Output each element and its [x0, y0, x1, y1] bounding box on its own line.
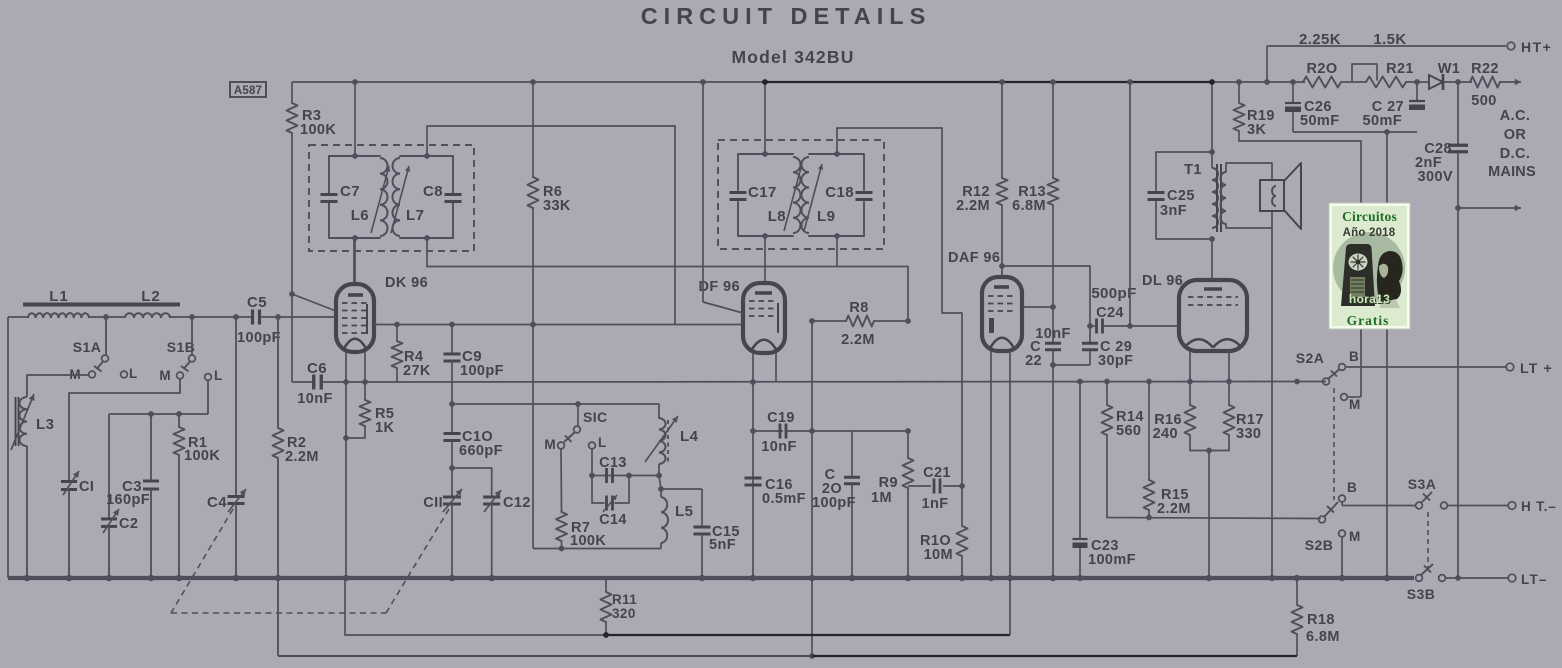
coil L6	[380, 158, 388, 174]
capacitor C12 (variable)	[483, 496, 500, 499]
terminal LT-	[1508, 574, 1516, 582]
svg-text:320: 320	[612, 606, 636, 621]
switch S3B	[1416, 575, 1423, 582]
tuning arrows L6 L7	[371, 166, 389, 233]
wire C9 to C10	[451, 361, 453, 433]
wire S1A-M to L3	[27, 375, 89, 396]
svg-text:M: M	[544, 437, 556, 452]
coil L8	[793, 157, 801, 172]
capacitor C5	[251, 310, 254, 325]
wire left frame down	[7, 317, 9, 578]
svg-text:10nF: 10nF	[761, 439, 796, 455]
wire C18 tank loop	[809, 154, 864, 190]
wire R14 bottom to S2B row	[1107, 435, 1320, 519]
svg-text:10M: 10M	[924, 547, 953, 563]
svg-text:R9: R9	[879, 475, 898, 491]
coil L9	[802, 157, 810, 172]
wire DAF96 grid row	[1022, 306, 1053, 308]
svg-text:T1: T1	[1184, 162, 1202, 178]
svg-text:1nF: 1nF	[922, 496, 949, 512]
svg-text:Circuitos: Circuitos	[1342, 209, 1397, 224]
svg-text:C2: C2	[119, 516, 138, 532]
svg-text:22: 22	[1025, 353, 1042, 369]
resistor R1	[178, 414, 180, 427]
wire R2 bottom through bus to bottom row	[277, 458, 279, 656]
svg-text:L8: L8	[768, 208, 786, 225]
capacitor C20	[851, 431, 853, 477]
svg-text:6.8M: 6.8M	[1012, 198, 1046, 214]
wire tank4 top riser	[836, 128, 838, 154]
terminal LT+	[1506, 363, 1514, 371]
svg-text:C12: C12	[503, 495, 531, 511]
resistor R21	[1366, 77, 1406, 88]
transformer T1 primary	[1212, 168, 1218, 180]
wire C5 row into tube	[292, 316, 336, 318]
gang link dashed C11	[386, 509, 449, 613]
capacitor C27	[1409, 100, 1425, 102]
wire tank3 top to HT bus	[764, 82, 766, 154]
svg-text:50mF: 50mF	[1363, 113, 1402, 129]
capacitor C22	[1052, 307, 1054, 343]
wire C15 row	[661, 488, 702, 490]
wire filament row 1 (left)	[345, 578, 606, 635]
wire R13 to grid row	[1052, 205, 1054, 307]
wire C7 tank loop	[329, 156, 380, 193]
svg-text:CIRCUIT DETAILS: CIRCUIT DETAILS	[641, 3, 932, 29]
resistor R14	[1106, 382, 1108, 406]
wire mains arrow lower	[1458, 207, 1521, 209]
wire C24 to DL96	[1103, 325, 1179, 327]
gang link dashed row	[171, 612, 386, 614]
aerial rod bar	[23, 303, 180, 307]
wire S2B-B stub	[1341, 502, 1343, 506]
wire R20-R21	[1341, 81, 1366, 83]
svg-text:C5: C5	[247, 294, 267, 311]
svg-text:L1: L1	[49, 288, 69, 305]
wire HT+ riser	[1266, 46, 1268, 82]
capacitor C15	[701, 489, 703, 527]
capacitor C29	[1089, 326, 1091, 343]
wire grid diagonal to DK96	[292, 294, 336, 311]
wire tank3 bottom to DF96 top	[764, 236, 766, 283]
svg-text:S1B: S1B	[167, 339, 195, 355]
wire C26 bottom	[1292, 112, 1294, 132]
resistor R12	[1001, 82, 1003, 178]
resistor R15	[1148, 382, 1150, 481]
svg-text:LT–: LT–	[1521, 572, 1548, 587]
coil L1	[28, 313, 36, 318]
wire tank1 bottom to DK96 top	[354, 238, 356, 286]
capacitor C25	[1148, 191, 1165, 194]
wire C24 row	[1090, 325, 1096, 327]
svg-text:R21: R21	[1386, 61, 1414, 77]
wire R6 column down	[532, 208, 534, 548]
watermark logo hora13	[1329, 203, 1410, 329]
wire S2A-M column	[1360, 141, 1362, 397]
capacitor C2 (variable)	[101, 517, 117, 520]
wire L3 bottom	[26, 446, 28, 578]
svg-text:A587: A587	[234, 85, 262, 97]
wire AGC2 row	[427, 267, 908, 322]
wire DAF96 anode branch	[1002, 266, 1090, 326]
svg-text:1M: 1M	[871, 490, 892, 506]
resistor R9	[907, 431, 909, 458]
resistor R4	[396, 325, 398, 342]
svg-text:6.8M: 6.8M	[1306, 629, 1340, 645]
svg-text:660pF: 660pF	[459, 443, 503, 459]
wire tank4 top row to detector	[837, 128, 962, 486]
svg-text:OR: OR	[1504, 127, 1527, 143]
svg-text:Model 342BU: Model 342BU	[731, 47, 854, 67]
wire DL96 pin1	[1189, 351, 1191, 382]
wire tank4 bottom to AGC2 row	[836, 236, 838, 267]
tube DF96	[743, 283, 785, 353]
svg-text:C24: C24	[1096, 305, 1124, 321]
wire HT+ bus (right segment to R20)	[1210, 81, 1305, 83]
gang link dashed C4	[171, 509, 233, 613]
capacitor C28	[1448, 144, 1468, 147]
svg-text:3K: 3K	[1247, 122, 1266, 138]
mech link S3A-S3B dashed	[1427, 512, 1429, 570]
svg-text:100pF: 100pF	[812, 495, 856, 511]
svg-text:2.25K: 2.25K	[1299, 31, 1341, 48]
wire tank2 top riser	[426, 126, 428, 156]
svg-text:240: 240	[1153, 426, 1178, 442]
wire C29 row	[1053, 364, 1090, 366]
svg-text:100pF: 100pF	[237, 330, 281, 346]
wire C20/R9 row	[812, 430, 908, 432]
wire speaker loop top	[1226, 163, 1272, 172]
svg-text:5nF: 5nF	[709, 537, 736, 553]
svg-text:C13: C13	[599, 455, 627, 471]
svg-text:A.C.: A.C.	[1500, 108, 1531, 124]
svg-text:L: L	[129, 366, 138, 381]
svg-text:L4: L4	[680, 428, 699, 445]
capacitor C25 loop	[1156, 152, 1212, 192]
wire S3A to HT- terminal	[1447, 505, 1508, 507]
resistor R5	[364, 382, 366, 400]
capacitor C10	[444, 432, 461, 435]
wire R21-W1	[1406, 81, 1429, 83]
wire C13 row	[592, 475, 659, 477]
capacitor C26	[1285, 102, 1301, 104]
capacitor C24	[1095, 319, 1098, 334]
svg-text:560: 560	[1116, 423, 1141, 439]
wire R16/R17 to bus	[1208, 451, 1210, 579]
svg-text:MAINS: MAINS	[1488, 164, 1536, 180]
wire C8 tank loop	[400, 156, 453, 193]
wire DAF96 pin columns	[990, 351, 992, 578]
svg-text:C7: C7	[340, 183, 360, 200]
wire C17 tank loop	[738, 154, 793, 190]
terminal H.T.+	[1507, 42, 1515, 50]
tube DL96	[1179, 280, 1247, 351]
svg-text:M: M	[159, 368, 171, 383]
wire R12 to DAF96 top cap	[1001, 205, 1003, 277]
wire DK96 pin1 column	[345, 352, 347, 578]
svg-text:330: 330	[1236, 426, 1261, 442]
svg-text:L: L	[598, 435, 607, 450]
wire DK96 anode row	[374, 324, 743, 326]
tube DAF96	[982, 277, 1022, 351]
inductor L3	[15, 397, 17, 446]
wire C15 bottom	[701, 534, 703, 578]
wire C26/C27 bottom rail	[1293, 131, 1417, 133]
svg-text:1K: 1K	[375, 420, 394, 436]
svg-text:100pF: 100pF	[460, 363, 504, 379]
resistor R19	[1238, 82, 1240, 103]
wire HT+ bus (black segment)	[765, 81, 1210, 83]
svg-text:DAF 96: DAF 96	[948, 250, 1000, 266]
wire osc bottom row	[533, 548, 661, 550]
capacitor C6	[312, 375, 315, 390]
svg-text:0.5mF: 0.5mF	[762, 491, 806, 507]
wire C10 to C11	[451, 441, 453, 497]
wire DL96 top cap	[1211, 239, 1213, 280]
wire R22 to mains arrow	[1500, 81, 1521, 83]
wire C28 column top	[1457, 82, 1459, 145]
label A587 box	[230, 82, 266, 97]
resistor R22	[1470, 77, 1500, 88]
svg-text:HT+: HT+	[1521, 39, 1552, 55]
svg-text:L7: L7	[406, 207, 424, 224]
wire AGC rail	[322, 381, 1326, 384]
svg-text:Año 2018: Año 2018	[1343, 227, 1396, 239]
svg-text:S2B: S2B	[1305, 537, 1333, 553]
wire C11 bottom	[451, 504, 453, 578]
capacitor C16	[745, 477, 762, 480]
wire S2A-M stub	[1347, 396, 1361, 398]
resistor R16	[1189, 382, 1191, 406]
svg-text:R2O: R2O	[1306, 61, 1337, 77]
wire C1 column	[68, 393, 70, 481]
speaker voice coil	[1260, 180, 1284, 211]
resistor R18	[1296, 578, 1298, 605]
wire C12 bottom	[491, 504, 493, 578]
resistor R7	[560, 449, 563, 512]
coil L4	[658, 404, 660, 418]
capacitor C8	[445, 193, 462, 196]
capacitor C7	[321, 193, 338, 196]
wire W1-R22	[1443, 81, 1472, 83]
capacitor C3	[143, 480, 159, 483]
wire R3 column down	[291, 133, 293, 382]
capacitor C17	[730, 191, 747, 194]
capacitor C19	[753, 430, 783, 432]
wire filament row 1 right riser	[1009, 578, 1011, 635]
wire C2 bottom	[108, 527, 110, 579]
wire R19 bottom to S2A-M column	[1239, 131, 1361, 141]
svg-text:R22: R22	[1471, 61, 1499, 77]
svg-text:160pF: 160pF	[106, 492, 150, 508]
wire S1B-L column	[207, 380, 209, 414]
wire DK96 pin2	[364, 352, 366, 382]
svg-text:2.2M: 2.2M	[1157, 501, 1191, 517]
svg-text:DL 96: DL 96	[1142, 273, 1183, 289]
wire AGC rail left	[292, 381, 313, 383]
svg-text:500: 500	[1471, 93, 1496, 109]
svg-text:100K: 100K	[570, 533, 606, 549]
svg-text:1.5K: 1.5K	[1373, 31, 1406, 48]
resistor R20	[1303, 77, 1341, 88]
svg-text:L3: L3	[36, 416, 54, 433]
speaker horn	[1284, 163, 1301, 229]
svg-text:33K: 33K	[543, 198, 571, 214]
svg-text:C25: C25	[1167, 188, 1195, 204]
svg-text:2.2M: 2.2M	[956, 198, 990, 214]
resistor R17	[1228, 382, 1230, 406]
wire S2B-M to bus	[1341, 537, 1343, 578]
wire HT+ top row	[1267, 45, 1506, 47]
terminal HT-	[1508, 502, 1516, 510]
wire C27 column	[1416, 82, 1418, 101]
capacitor C4 (variable)	[228, 495, 245, 498]
wire tank1 top to HT bus	[354, 82, 356, 156]
wire R5 bottom	[346, 426, 365, 438]
svg-text:R11: R11	[612, 592, 637, 607]
svg-text:SIC: SIC	[583, 409, 608, 425]
capacitor C11 (variable)	[443, 496, 461, 499]
wire R1 bottom	[178, 455, 180, 578]
wire S1B-M row to C1	[69, 379, 180, 393]
wire S3B to LT- terminal	[1445, 577, 1508, 579]
wire osc row	[452, 403, 659, 405]
svg-text:300V: 300V	[1418, 169, 1453, 185]
wire C26/C27 rail drop to LT- bus	[1386, 132, 1388, 578]
wire C14 loop	[592, 476, 604, 504]
wire HT+ bus (grey left segment)	[292, 81, 765, 83]
svg-text:S1A: S1A	[73, 339, 101, 355]
resistor R3	[291, 82, 293, 103]
svg-text:L: L	[214, 368, 223, 383]
transformer T1 core	[1216, 164, 1218, 232]
svg-text:27K: 27K	[403, 363, 431, 379]
svg-text:DF 96: DF 96	[699, 279, 741, 295]
coil L7	[393, 158, 401, 174]
capacitor C1 (variable)	[61, 480, 77, 483]
svg-text:B: B	[1349, 349, 1359, 364]
resistor R2 column	[277, 317, 279, 428]
svg-text:CII: CII	[423, 495, 443, 511]
svg-text:Gratis: Gratis	[1347, 313, 1390, 328]
wire DK96 top cap	[353, 238, 355, 284]
svg-text:H T.–: H T.–	[1521, 499, 1557, 514]
potentiometer tap R21 bracket	[1352, 64, 1377, 82]
wire R16/R17 join	[1190, 435, 1229, 451]
diode W1	[1429, 75, 1443, 89]
svg-text:S2A: S2A	[1296, 350, 1324, 366]
wire R7 bottom	[561, 541, 563, 549]
wire S2A-B to LT+ terminal	[1345, 366, 1506, 368]
svg-text:3nF: 3nF	[1160, 203, 1187, 219]
svg-text:C8: C8	[423, 183, 443, 200]
svg-text:C18: C18	[825, 184, 854, 201]
mech link S2A-S2B dashed	[1333, 388, 1335, 500]
wire filament row 1 (black)	[606, 634, 1010, 636]
wire DF96 pin1 column	[752, 353, 754, 578]
wire T1 column from HT bus	[1211, 82, 1213, 168]
wire L4 to L5	[658, 464, 660, 476]
svg-text:C19: C19	[767, 410, 795, 426]
capacitor C18	[856, 191, 873, 194]
svg-text:C6: C6	[307, 360, 327, 377]
wire filament row 2 (grey)	[278, 655, 812, 657]
svg-text:100mF: 100mF	[1088, 552, 1136, 568]
svg-text:L6: L6	[351, 207, 369, 224]
svg-text:M: M	[1349, 529, 1361, 544]
resistor R10	[961, 486, 963, 526]
svg-text:S3B: S3B	[1407, 586, 1435, 602]
svg-text:10nF: 10nF	[297, 391, 332, 407]
resistor R2	[273, 428, 284, 458]
wire DL96 pin2	[1228, 351, 1230, 382]
capacitor C13	[605, 468, 608, 483]
capacitor C9	[451, 325, 453, 354]
IF can 2 dashed box	[718, 140, 884, 249]
resistor R13	[1052, 82, 1054, 178]
wire HT- row left	[1342, 505, 1415, 507]
svg-text:D.C.: D.C.	[1500, 146, 1531, 162]
wire R8 left column	[811, 321, 813, 656]
tube DK96	[336, 284, 374, 352]
svg-text:R18: R18	[1307, 612, 1335, 628]
wire C28 to LT- row	[1457, 152, 1459, 578]
svg-text:R8: R8	[849, 300, 868, 316]
IF can 1 dashed box	[309, 145, 474, 251]
svg-text:C17: C17	[748, 184, 777, 201]
svg-text:2.2M: 2.2M	[841, 332, 875, 348]
wire aerial row	[8, 316, 28, 318]
svg-text:50mF: 50mF	[1300, 113, 1339, 129]
wire C4 bottom	[235, 504, 237, 578]
resistor R6	[532, 82, 534, 177]
wire tank2 bottom to AGC row	[426, 238, 428, 267]
svg-text:LT +: LT +	[1520, 360, 1553, 376]
wire speaker column	[1271, 163, 1273, 578]
svg-text:C14: C14	[599, 512, 627, 528]
svg-text:M: M	[1349, 397, 1361, 412]
wire C26 column	[1292, 82, 1294, 103]
svg-text:DK 96: DK 96	[385, 275, 428, 291]
svg-text:L9: L9	[817, 208, 835, 225]
wire C3 column	[150, 414, 152, 481]
wire C3 bottom	[150, 489, 152, 578]
coil L2	[125, 313, 134, 318]
resistor R8	[812, 320, 846, 322]
svg-text:L5: L5	[675, 503, 693, 520]
capacitor C14 (variable)	[605, 496, 608, 511]
svg-text:30pF: 30pF	[1098, 353, 1133, 369]
svg-text:L2: L2	[141, 288, 161, 305]
coil L5	[660, 489, 662, 497]
wire C12 branch	[452, 468, 492, 497]
chassis bus (thick)	[8, 576, 1414, 580]
svg-text:C4: C4	[207, 494, 227, 511]
wire C1 bottom	[68, 490, 70, 579]
svg-text:2.2M: 2.2M	[285, 449, 319, 465]
capacitor C23	[1079, 382, 1081, 539]
svg-text:C21: C21	[923, 465, 951, 481]
wire C2 column	[108, 414, 110, 519]
svg-text:B: B	[1347, 480, 1357, 495]
wire DL96 screen column	[1129, 82, 1131, 326]
tuning arrows L8 L9	[784, 164, 802, 231]
transformer T1 secondary	[1221, 172, 1226, 185]
svg-text:W1: W1	[1438, 61, 1461, 77]
svg-text:100K: 100K	[184, 448, 220, 464]
wire C2/C3/R1 row	[109, 413, 208, 415]
svg-text:CI: CI	[79, 479, 94, 495]
